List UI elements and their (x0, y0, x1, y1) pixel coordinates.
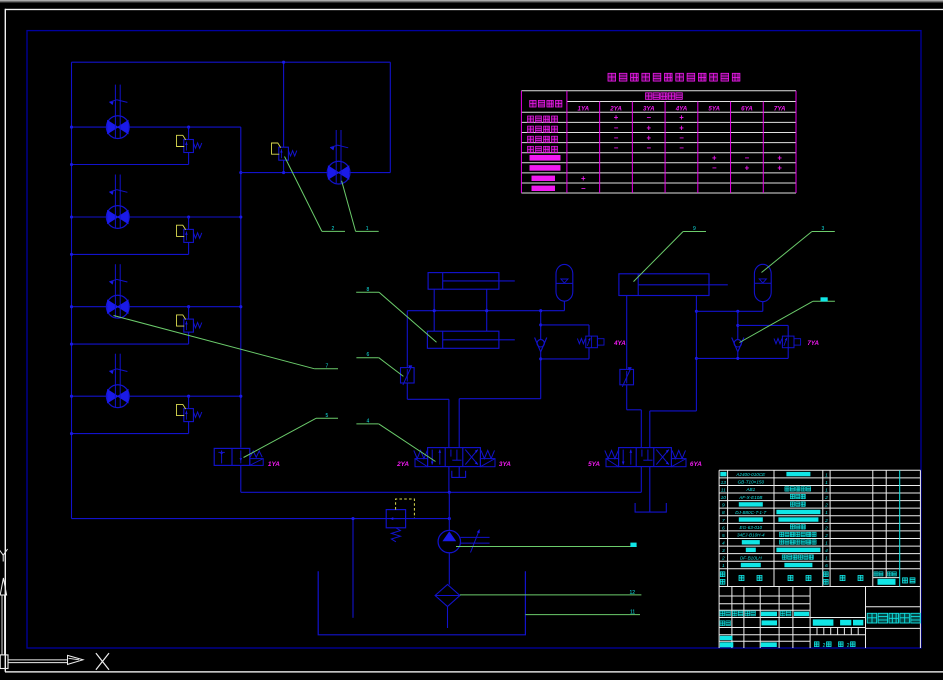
wire CV2 bottom bus (696, 357, 788, 359)
wire motor4 line (72, 395, 241, 397)
svg-text:6: 6 (722, 525, 725, 531)
svg-text:1: 1 (825, 480, 828, 486)
svg-text:2: 2 (824, 503, 828, 509)
wire pressure bus vertical (240, 127, 242, 448)
svg-text:+: + (581, 174, 586, 183)
svg-text:7: 7 (326, 363, 329, 369)
junction CV2 pilot tap (736, 324, 739, 327)
svg-text:6YA: 6YA (690, 461, 702, 468)
relief valve RV1 (184, 140, 194, 153)
svg-text:8: 8 (722, 510, 725, 516)
svg-text:+: + (679, 113, 684, 122)
svg-text:6YA: 6YA (741, 105, 753, 112)
svg-text:+: + (712, 154, 717, 163)
svg-text:11: 11 (630, 609, 635, 615)
svg-text:6: 6 (367, 352, 370, 358)
svg-text:10: 10 (721, 495, 727, 501)
svg-text:−: − (614, 123, 619, 132)
wire motor3 return (72, 343, 189, 345)
svg-text:1: 1 (825, 487, 828, 493)
svg-text:1: 1 (366, 226, 369, 232)
svg-text:+: + (646, 133, 651, 142)
relief RV6 pilot line yellow (396, 499, 415, 518)
svg-text:AF-X-E10B: AF-X-E10B (738, 495, 762, 500)
BOM table horizontal lines (719, 469, 920, 471)
wire relief4 stubs (188, 396, 190, 408)
leader tank (525, 614, 640, 616)
svg-text:−: − (646, 113, 651, 122)
wire CY3 left port (626, 296, 628, 370)
svg-text:−: − (614, 144, 619, 153)
hydraulic motor M2 (106, 206, 129, 229)
svg-text:1: 1 (722, 563, 725, 569)
relief valve RV5 (279, 147, 289, 160)
wire bottom return bus (72, 518, 450, 520)
svg-text:2: 2 (824, 518, 828, 524)
svg-text:2YA: 2YA (396, 461, 409, 468)
svg-text:+: + (679, 123, 684, 132)
svg-text:4: 4 (367, 418, 370, 424)
title block row texts (720, 611, 725, 616)
title block middle blocks (813, 619, 834, 625)
wire motor1 line (72, 126, 241, 128)
wire pilot rectangle CV1 (541, 324, 589, 326)
throttle valve TH2 (620, 369, 634, 384)
leader accumulator AC2 (762, 232, 812, 273)
svg-text:7YA: 7YA (807, 340, 819, 347)
wire CY3 right port (695, 296, 697, 411)
leader check valve CV2 (740, 301, 813, 342)
svg-text:AB1: AB1 (745, 487, 755, 492)
relief RV6 spring (391, 528, 400, 542)
svg-text:5YA: 5YA (588, 461, 600, 468)
junction relief5 outlet (282, 171, 285, 174)
BOM rows content (720, 472, 726, 476)
junction motor1 relief tap (187, 126, 190, 129)
white paper frame (5, 9, 943, 10)
wire pilot rectangle CV2 (738, 324, 788, 326)
svg-text:7: 7 (722, 518, 725, 524)
relief valve RV6 main (386, 510, 405, 528)
svg-text:−: − (679, 133, 684, 142)
check valve CV1 (535, 338, 541, 352)
svg-text:2: 2 (721, 556, 725, 562)
leader valve 1YA (244, 418, 317, 457)
svg-text:−: − (646, 144, 651, 153)
leader relief RV5 (285, 157, 322, 232)
junction return-tank (351, 517, 354, 520)
svg-text:4: 4 (722, 540, 725, 546)
wire A-line left drop (406, 311, 408, 368)
wire pump suction (448, 553, 450, 585)
svg-text:3: 3 (722, 548, 725, 554)
hydraulic motor M3 (106, 295, 129, 318)
svg-text:5YA: 5YA (708, 105, 720, 112)
svg-text:34EJ-B10H-4: 34EJ-B10H-4 (737, 533, 765, 538)
leader motor3 (114, 316, 315, 369)
wire motor2 return (72, 253, 189, 255)
relief valve RV3 (184, 319, 194, 332)
accumulator AC1 (556, 264, 573, 301)
leader cylinder CY2 (356, 291, 379, 293)
svg-text:4YA: 4YA (613, 340, 626, 347)
BOM header texts (720, 572, 725, 577)
svg-text:3YA: 3YA (643, 105, 655, 112)
svg-text:+: + (777, 164, 782, 173)
wire motor1 return (72, 164, 189, 166)
wire filter to tank (447, 607, 449, 629)
wire motor4 return (72, 433, 189, 435)
wire pump riser (448, 492, 450, 530)
wire relief2 stubs (188, 217, 190, 229)
pilot valve 7YA (774, 339, 782, 344)
solenoid valve V1 1YA (214, 448, 250, 465)
svg-text:2: 2 (823, 643, 826, 649)
svg-text:3YA: 3YA (499, 461, 511, 468)
svg-text:1YA: 1YA (578, 105, 590, 112)
svg-text:GB-T10×150: GB-T10×150 (738, 480, 765, 485)
svg-text:1: 1 (825, 540, 828, 546)
window top gray strip (0, 0, 943, 2)
wire top bus (72, 61, 391, 63)
svg-text:−: − (745, 154, 750, 163)
svg-text:5: 5 (326, 413, 329, 419)
svg-text:7YA: 7YA (774, 105, 786, 112)
accumulator AC1 drop (563, 301, 565, 311)
wire V3 T-port (649, 467, 651, 512)
svg-text:DF-B10LH: DF-B10LH (740, 555, 762, 560)
wire V3 P-port (640, 467, 642, 493)
wire left return bus (71, 62, 73, 518)
junction dots pressure bus (239, 171, 242, 174)
svg-text:+: + (614, 113, 619, 122)
junction motor4 relief tap (187, 395, 190, 398)
svg-text:−: − (712, 164, 717, 173)
svg-text:9: 9 (693, 226, 696, 232)
wire motor5 line (241, 172, 390, 174)
junction return-pump (448, 517, 451, 520)
title block grid (719, 595, 810, 597)
cylinder CY3 (619, 274, 709, 296)
cylinder CY1 upper (428, 273, 499, 290)
wire motor5 box right edge (389, 62, 391, 172)
UCS icon X label (96, 653, 109, 670)
wire main pressure bus (241, 491, 642, 493)
leader filter (460, 594, 642, 596)
cycle table row labels (528, 116, 534, 122)
wire cylinder ports right (486, 289, 488, 331)
UCS icon X axis (8, 659, 67, 661)
junction CY3 right port dots (695, 310, 698, 313)
wire right accumulator bus (696, 310, 762, 312)
tank T1 (318, 571, 525, 635)
svg-text:2: 2 (332, 226, 335, 232)
sheet count text (814, 642, 819, 647)
wire relief5 outlet stub (283, 160, 285, 172)
BOM table vertical lines (718, 470, 720, 586)
junction right bus check tap (736, 310, 739, 313)
wire check valve line lower (540, 352, 542, 399)
leader pump (456, 546, 637, 548)
wire check valve CV2 line (737, 311, 739, 339)
svg-text:2YA: 2YA (609, 105, 622, 112)
wire B-line left (459, 398, 541, 400)
svg-text:1YA: 1YA (268, 461, 280, 468)
svg-text:+: + (646, 123, 651, 132)
wire motor2 line (72, 216, 241, 218)
hydraulic motor M4 (106, 385, 129, 408)
wire cylinder ports left (433, 289, 435, 331)
UCS icon Y label (0, 549, 3, 555)
wire check valve line upper (540, 311, 542, 340)
svg-text:3: 3 (822, 226, 825, 232)
cycle table title (608, 73, 616, 81)
solenoid valve V2 2YA-3YA (428, 448, 481, 467)
svg-text:DJ-B80C-T-1-T: DJ-B80C-T-1-T (735, 510, 767, 515)
tank bracket V2 (452, 471, 466, 478)
tank bracket V3 (635, 503, 666, 512)
svg-text:+: + (745, 164, 750, 173)
svg-text:11: 11 (721, 487, 726, 493)
valve 1YA solenoid box (250, 459, 263, 466)
svg-text:6: 6 (825, 563, 828, 569)
leader motor M5 (342, 181, 356, 232)
svg-text:EG-63-010: EG-63-010 (740, 525, 763, 530)
accumulator AC2 drop (762, 302, 764, 312)
svg-text:4: 4 (825, 548, 828, 554)
UCS icon Y axis line (1, 595, 3, 655)
valve 1YA spring (250, 451, 262, 457)
check valve CV2 (732, 338, 738, 352)
svg-text:9: 9 (722, 503, 725, 509)
svg-text:−: − (614, 133, 619, 142)
svg-text:8: 8 (367, 287, 370, 293)
relief valve RV2 (184, 229, 194, 242)
junction top bus relief5 (282, 61, 285, 64)
svg-text:2: 2 (824, 495, 828, 501)
svg-text:−: − (679, 144, 684, 153)
junction cylinder bus dots (433, 309, 436, 312)
svg-text:2: 2 (824, 533, 828, 539)
cycle table row highlight blocks (530, 155, 561, 161)
svg-text:−: − (581, 184, 586, 193)
svg-text:5: 5 (722, 533, 725, 539)
svg-text:12: 12 (630, 590, 636, 596)
accumulator AC2 (754, 264, 771, 301)
BOM cyan divider line (899, 470, 901, 586)
svg-text:4YA: 4YA (675, 105, 688, 112)
pump P1 (438, 530, 460, 552)
wire relief5 feed drop (283, 62, 285, 147)
svg-text:1: 1 (825, 556, 828, 562)
leader throttle TH1 (356, 357, 378, 359)
hydraulic motor M5 (327, 161, 350, 184)
wire relief1 stubs (188, 127, 190, 139)
filter F1 (435, 585, 460, 607)
junction pump tee (448, 491, 451, 494)
svg-text:1: 1 (825, 510, 828, 516)
pilot valve 4YA (577, 339, 585, 344)
svg-text:A2400-010CE: A2400-010CE (735, 472, 766, 477)
UCS icon origin box (0, 655, 8, 669)
junction CV2 bottom (736, 357, 739, 360)
UCS icon Y axis arrow (0, 578, 6, 595)
wire relief3 stubs (188, 307, 190, 319)
throttle valve TH1 (401, 368, 415, 383)
junction motor3 relief tap (187, 305, 190, 308)
leader cylinder CY3 (634, 232, 684, 282)
wire V2 T-port (458, 467, 460, 477)
relief valve RV4 (184, 409, 194, 422)
cycle table header text (530, 100, 536, 107)
wire V2 P-port (448, 467, 450, 493)
svg-text:13: 13 (721, 480, 727, 486)
svg-text:2: 2 (847, 643, 850, 649)
cylinder CY2 lower (427, 331, 499, 348)
junction motor2 relief tap (187, 215, 190, 218)
svg-text:1: 1 (825, 472, 828, 478)
junction CV1 pilot taps (539, 323, 542, 326)
hydraulic motor M1 (106, 116, 129, 139)
wire tank return drop (352, 519, 354, 618)
wire motor3 line (72, 306, 241, 308)
drawing title text (867, 613, 877, 623)
svg-text:+: + (777, 154, 782, 163)
solenoid valve V3 5YA-6YA (619, 448, 672, 467)
wire valve 1YA P-drop (240, 465, 242, 492)
junction dots left bus (70, 126, 73, 129)
leader valve V2 (356, 423, 378, 425)
cycle table frame (521, 90, 796, 92)
wire cylinder bus (407, 310, 564, 312)
svg-text:2: 2 (824, 525, 828, 531)
